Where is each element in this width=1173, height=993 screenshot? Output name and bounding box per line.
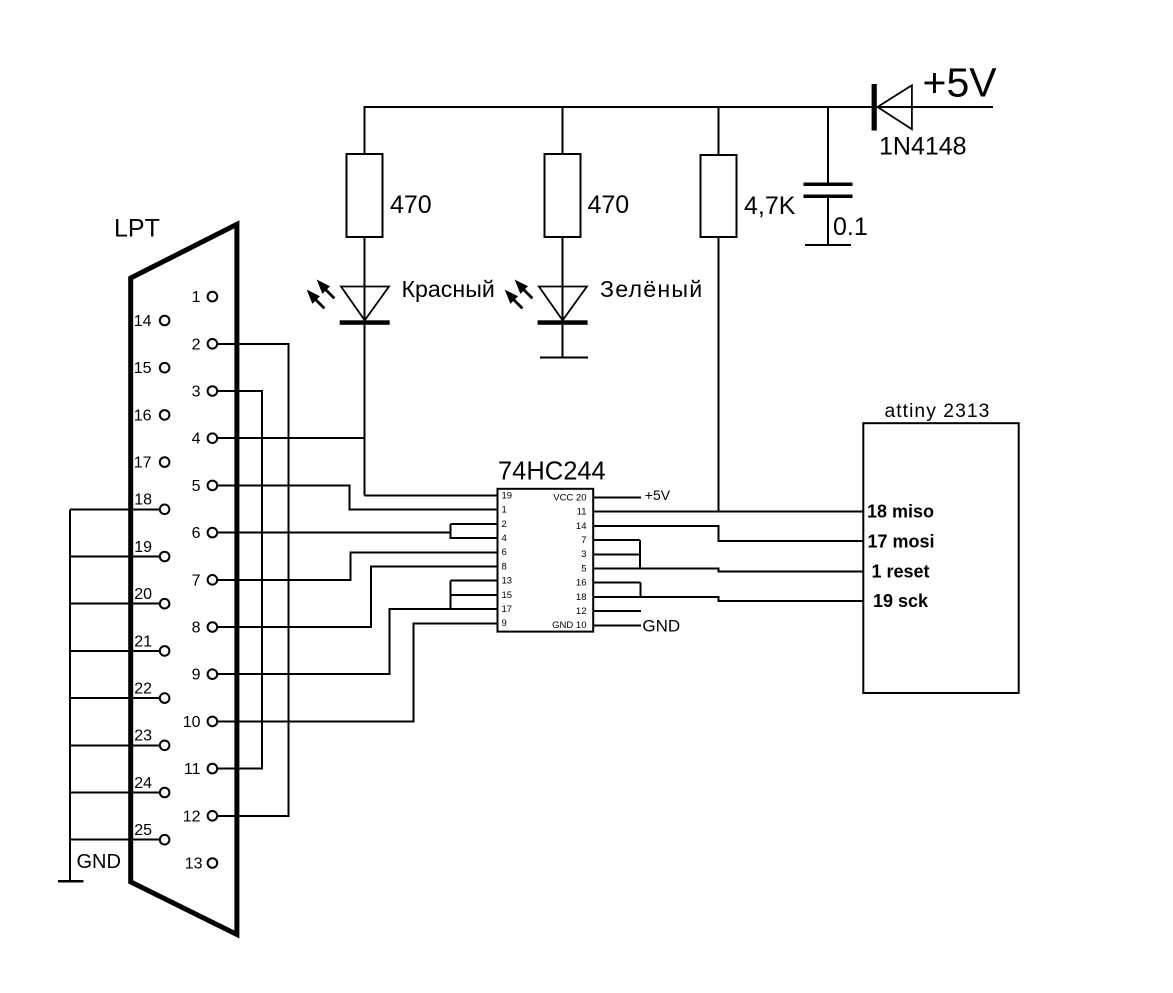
svg-text:2: 2 xyxy=(192,336,201,353)
svg-text:17 mosi: 17 mosi xyxy=(868,531,935,551)
svg-text:18: 18 xyxy=(134,492,152,509)
LPT left column pin numbers 18-25 (above wires) xyxy=(134,492,152,839)
wire LPT6 to IC pins 2,4 xyxy=(217,532,451,534)
LPT pin circles left column 14-25 xyxy=(160,316,170,845)
ground symbol xyxy=(58,880,84,883)
pin 7 xyxy=(208,575,218,585)
wire capacitor chain top xyxy=(827,106,829,183)
svg-text:8: 8 xyxy=(502,561,507,572)
pin 25 xyxy=(160,835,170,845)
wire LPT2 to LPT12 loopback xyxy=(217,344,289,816)
wire U1 pin5 to attiny reset xyxy=(593,569,863,572)
svg-text:22: 22 xyxy=(134,681,152,698)
svg-text:11: 11 xyxy=(577,507,587,518)
svg-text:3: 3 xyxy=(581,549,586,560)
wire U1 pin18 to attiny sck xyxy=(593,597,863,601)
svg-text:9: 9 xyxy=(502,618,507,629)
svg-text:470: 470 xyxy=(390,191,432,219)
svg-text:13: 13 xyxy=(502,576,513,587)
GND bus wire left xyxy=(70,509,161,881)
svg-text:7: 7 xyxy=(581,535,586,546)
LPT connector DB25 outline xyxy=(131,224,237,934)
LED green light arrow b xyxy=(506,291,517,303)
wire +5V right of diode xyxy=(877,106,993,108)
svg-text:12: 12 xyxy=(183,808,201,825)
svg-text:18: 18 xyxy=(576,592,587,603)
svg-text:+5V: +5V xyxy=(645,487,671,503)
svg-text:18 miso: 18 miso xyxy=(867,502,934,522)
bracket IC pins 2-4 xyxy=(451,524,498,539)
svg-text:+5V: +5V xyxy=(923,60,998,106)
wire green LED chain top xyxy=(562,106,564,154)
svg-text:4,7K: 4,7K xyxy=(744,192,796,220)
pin 20 xyxy=(160,599,170,609)
bracket IC pins 13-15 tied to pin17 wire xyxy=(451,581,498,609)
pin 5 xyxy=(208,481,218,491)
svg-text:13: 13 xyxy=(185,856,203,873)
svg-text:5: 5 xyxy=(581,563,586,574)
svg-text:19: 19 xyxy=(502,490,513,501)
svg-text:4: 4 xyxy=(192,431,201,448)
svg-text:16: 16 xyxy=(134,407,152,424)
svg-text:Красный: Красный xyxy=(402,276,495,302)
wire LPT3 to LPT11 loopback xyxy=(217,391,262,769)
svg-text:1: 1 xyxy=(192,289,201,306)
svg-text:1 reset: 1 reset xyxy=(872,562,930,582)
resistor R 470 (green LED) xyxy=(545,154,581,237)
LED red light arrow a xyxy=(318,281,329,293)
svg-text:11: 11 xyxy=(184,761,201,778)
svg-text:1: 1 xyxy=(502,505,507,516)
svg-text:1N4148: 1N4148 xyxy=(879,133,967,161)
bracket U1 pins 7,3,5 xyxy=(593,540,640,568)
svg-text:LPT: LPT xyxy=(114,215,160,243)
wire top +5V rail xyxy=(365,106,872,108)
pin 3 xyxy=(208,386,218,396)
pin 10 xyxy=(208,717,218,727)
wire LPT7 to IC pin6 xyxy=(217,552,498,580)
svg-text:7: 7 xyxy=(192,572,201,589)
resistor R 4,7K pull-up xyxy=(701,155,737,237)
pin 8 xyxy=(208,622,218,632)
wire LPT9 to IC pin17 xyxy=(217,609,498,674)
svg-text:21: 21 xyxy=(134,633,152,650)
svg-text:3: 3 xyxy=(192,384,201,401)
LPT right column pin numbers xyxy=(183,289,203,872)
pin 9 xyxy=(208,669,218,679)
svg-text:15: 15 xyxy=(134,360,152,377)
wire 4,7K chain top xyxy=(718,106,720,155)
LED green light arrow a xyxy=(516,281,527,293)
svg-text:2: 2 xyxy=(502,519,507,530)
svg-text:20: 20 xyxy=(134,586,152,603)
wire 4,7K bottom to miso net xyxy=(718,237,720,512)
svg-text:GND: GND xyxy=(77,851,121,873)
svg-text:8: 8 xyxy=(192,620,201,637)
LPT pin circles right column 1-13 xyxy=(208,292,218,868)
diode D1 1N4148 xyxy=(872,84,912,131)
U1 right pin number labels xyxy=(552,492,586,631)
pin 4 xyxy=(208,433,218,443)
wire LPT10 to IC pin9 xyxy=(217,623,498,721)
pin 13 xyxy=(208,858,218,868)
svg-text:16: 16 xyxy=(576,578,587,589)
svg-text:9: 9 xyxy=(192,667,201,684)
svg-text:14: 14 xyxy=(134,313,152,330)
op buffer U1 74HC244 box xyxy=(498,489,594,632)
svg-text:74HC244: 74HC244 xyxy=(498,457,606,485)
svg-text:GND 10: GND 10 xyxy=(552,620,586,631)
svg-text:17: 17 xyxy=(134,455,152,472)
wire U1 pin20 to +5V xyxy=(593,497,641,499)
wire U1 pin10 to GND xyxy=(593,624,641,626)
pin 19 xyxy=(160,552,170,562)
LED D3 green symbol xyxy=(538,237,588,357)
svg-text:24: 24 xyxy=(134,775,152,792)
LPT left column pin numbers 14-17 xyxy=(134,313,152,472)
pin 21 xyxy=(160,646,170,656)
MCU attiny 2313 box xyxy=(863,423,1018,693)
pin 12 xyxy=(208,811,218,821)
wire U1 pin11 to attiny miso xyxy=(593,511,863,513)
LED D2 red symbol xyxy=(340,237,390,325)
svg-text:19: 19 xyxy=(134,539,152,556)
svg-text:Зелёный: Зелёный xyxy=(600,276,703,302)
svg-text:6: 6 xyxy=(192,525,201,542)
svg-text:17: 17 xyxy=(502,604,513,615)
pin 11 xyxy=(208,764,218,774)
svg-text:5: 5 xyxy=(192,478,201,495)
wire LPT8 to IC pin8 xyxy=(217,567,498,628)
svg-text:14: 14 xyxy=(576,521,587,532)
svg-text:0.1: 0.1 xyxy=(833,213,868,241)
pin 15 xyxy=(160,363,170,373)
LED red light arrow b xyxy=(308,291,319,303)
svg-text:6: 6 xyxy=(502,547,507,558)
pin 14 xyxy=(160,316,170,326)
svg-text:25: 25 xyxy=(134,822,152,839)
bracket U1 pins 16,18 xyxy=(593,583,640,597)
svg-text:4: 4 xyxy=(502,533,507,544)
pin 17 xyxy=(160,457,170,467)
svg-text:19 sck: 19 sck xyxy=(873,591,929,611)
pin 24 xyxy=(160,788,170,798)
pin 1 xyxy=(208,292,218,302)
pin 22 xyxy=(160,693,170,703)
pin 23 xyxy=(160,741,170,751)
wire U1 pin12 stub xyxy=(593,610,641,612)
wire LPT4 to LED node xyxy=(217,437,365,439)
pin 6 xyxy=(208,528,218,538)
svg-text:GND: GND xyxy=(642,617,680,636)
wire red LED cathode down to node with LPT4 and 74HC244 pin19 xyxy=(365,325,498,496)
wire U1 pin14 to attiny mosi xyxy=(593,526,863,541)
pin 2 xyxy=(208,339,218,349)
capacitor C 0.1 xyxy=(804,183,853,246)
wire red LED chain top xyxy=(364,106,366,154)
svg-text:470: 470 xyxy=(588,191,630,219)
resistor R 470 (red LED) xyxy=(347,154,383,237)
svg-text:12: 12 xyxy=(576,606,587,617)
svg-text:23: 23 xyxy=(134,728,152,745)
U1 left pin number labels xyxy=(502,490,513,629)
svg-text:15: 15 xyxy=(502,590,513,601)
pin 16 xyxy=(160,410,170,420)
svg-text:attiny 2313: attiny 2313 xyxy=(885,401,991,422)
pin 18 xyxy=(160,505,170,515)
svg-text:VCC 20: VCC 20 xyxy=(553,492,586,503)
svg-text:10: 10 xyxy=(183,714,201,731)
wire LPT5 to IC pin1 xyxy=(217,485,498,509)
